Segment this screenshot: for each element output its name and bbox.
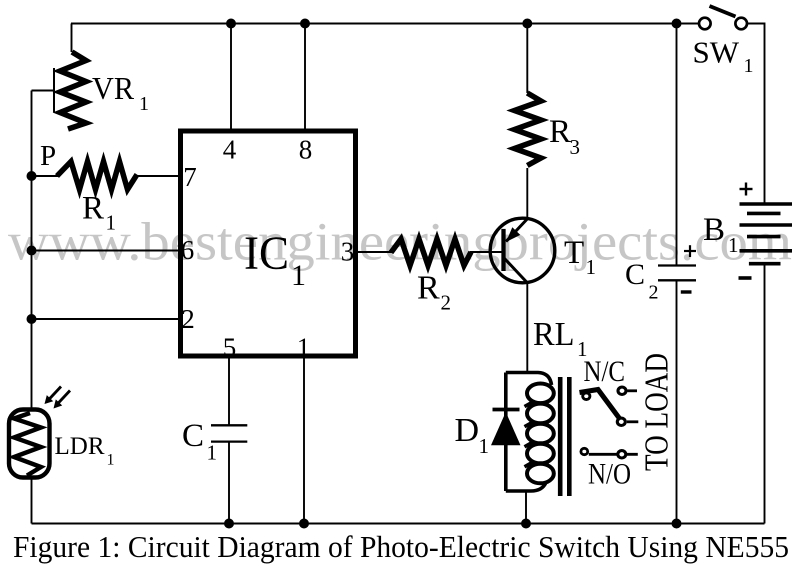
svg-text:1: 1 xyxy=(728,233,739,257)
svg-text:1: 1 xyxy=(586,255,597,279)
svg-text:1: 1 xyxy=(106,211,117,235)
svg-text:C: C xyxy=(625,258,645,291)
svg-text:2: 2 xyxy=(181,304,195,334)
svg-text:3: 3 xyxy=(570,135,581,159)
svg-text:6: 6 xyxy=(181,235,195,265)
svg-text:T: T xyxy=(564,235,584,271)
svg-text:SW: SW xyxy=(693,35,740,70)
svg-text:3: 3 xyxy=(341,237,355,267)
svg-text:2: 2 xyxy=(441,291,452,315)
svg-text:1: 1 xyxy=(297,333,311,363)
svg-text:R: R xyxy=(417,270,440,307)
svg-text:RL: RL xyxy=(533,316,575,353)
svg-text:Figure 1: Circuit Diagram of P: Figure 1: Circuit Diagram of Photo-Elect… xyxy=(13,530,789,564)
svg-text:LDR: LDR xyxy=(55,433,105,460)
svg-text:D: D xyxy=(455,412,480,449)
svg-text:TO LOAD: TO LOAD xyxy=(639,353,676,471)
svg-text:1: 1 xyxy=(139,93,149,115)
svg-text:8: 8 xyxy=(299,135,313,165)
svg-text:B: B xyxy=(703,212,725,248)
svg-text:R: R xyxy=(549,114,571,150)
svg-text:N/C: N/C xyxy=(584,356,626,388)
svg-text:7: 7 xyxy=(183,162,197,192)
svg-text:1: 1 xyxy=(744,55,754,77)
svg-text:1: 1 xyxy=(291,259,306,292)
svg-text:5: 5 xyxy=(223,333,237,363)
svg-text:1: 1 xyxy=(107,452,115,469)
svg-text:P: P xyxy=(40,140,56,172)
svg-text:R: R xyxy=(82,191,104,227)
svg-text:1: 1 xyxy=(479,434,490,458)
svg-text:VR: VR xyxy=(92,70,135,106)
svg-text:C: C xyxy=(182,418,204,454)
svg-text:N/O: N/O xyxy=(588,459,631,491)
svg-text:1: 1 xyxy=(207,441,218,465)
svg-text:4: 4 xyxy=(223,135,237,165)
svg-text:IC: IC xyxy=(244,227,289,280)
svg-text:2: 2 xyxy=(649,282,659,304)
